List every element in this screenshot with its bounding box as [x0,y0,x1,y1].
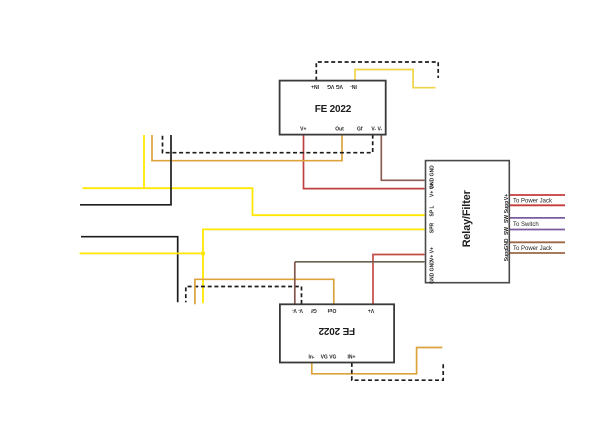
svg-text:In-: In- [308,354,314,360]
svg-text:Gf: Gf [357,127,363,133]
svg-text:V- V-: V- V- [371,127,382,133]
wire: dashed U2 IN+ to dangling right [352,363,443,381]
svg-text:IN+: IN+ [348,354,356,360]
wire: maroon U1 V- b to relay pin 1 [381,135,424,181]
wire: dashed U2 V- b dangling left [186,287,302,304]
wire: dashed from U1 pin IN+ top [316,62,438,81]
wire: red U2 V+ to relay pin 5 [373,255,425,304]
wire: relay right brown To Power Jack 3 [510,241,565,243]
svg-text:Supp: Supp [504,201,510,214]
svg-text:GND GND: GND GND [430,260,436,284]
wire: brown U2 V- a vertical [294,262,296,304]
svg-text:Supp: Supp [504,249,510,262]
svg-text:Relay/Filter: Relay/Filter [461,189,473,247]
svg-text:To Power Jack: To Power Jack [513,246,553,252]
node: yellow junction [201,251,205,255]
svg-text:V+ V+: V+ V+ [430,183,436,197]
svg-text:IN-: IN- [350,83,357,89]
svg-text:SP L: SP L [430,205,436,216]
wire: yellow net to relay pin 4 [80,229,425,303]
relay/filter module U3 [426,161,510,283]
svg-text:V+: V+ [504,194,510,200]
op-amp module U2 FE 2022 (bottom, rotated 180) [280,304,394,362]
svg-text:IN+: IN+ [311,83,319,89]
wire: dashed U1 V- a dangling left [163,135,373,153]
svg-text:Out: Out [335,127,344,133]
svg-text:V+: V+ [300,127,306,133]
svg-text:Out: Out [327,307,336,313]
wire: orange U2 Out dangling left [195,279,334,304]
wire: yellow long net to relay pin 3 [83,188,425,215]
wire: yellow from U1 pin IN- top [355,70,436,88]
wire: black dangle upper [80,135,171,205]
svg-text:To Switch: To Switch [513,222,539,228]
svg-text:VG VG: VG VG [321,354,337,360]
wire: orange U1 Out dangling left [152,135,342,161]
svg-text:SW: SW [504,215,510,223]
wire: yellow dangle branch [143,135,145,188]
svg-text:V+: V+ [368,307,374,313]
wire: relay right purple To Switch 1 [510,217,565,219]
wire: olive horizontal to relay pin 6 [295,261,425,263]
svg-text:To Power Jack: To Power Jack [513,198,553,204]
svg-text:FE 2022: FE 2022 [318,325,355,336]
op-amp module U1 FE 2022 (top) [280,81,386,135]
svg-text:VG VG: VG VG [327,83,343,89]
svg-text:SPR: SPR [430,222,436,233]
svg-text:GND: GND [504,238,510,250]
wire: relay right brown To Power Jack 4 [510,252,565,254]
wire: black dangle lower [81,237,178,303]
wire: relay right red To Power Jack 2 [510,204,565,206]
svg-text:FE 2022: FE 2022 [315,104,352,115]
wire: relay right purple To Switch 2 [510,229,565,231]
svg-text:V- V-: V- V- [292,307,303,313]
svg-text:SW: SW [504,227,510,235]
wire: relay right red To Power Jack 1 [510,194,565,196]
svg-text:V+ V+: V+ V+ [430,247,436,261]
wire: orange U2 In- to dangling right [312,348,443,374]
svg-text:Gf: Gf [311,307,317,313]
wire: red U1 V+ to relay pin 2 [304,135,425,189]
